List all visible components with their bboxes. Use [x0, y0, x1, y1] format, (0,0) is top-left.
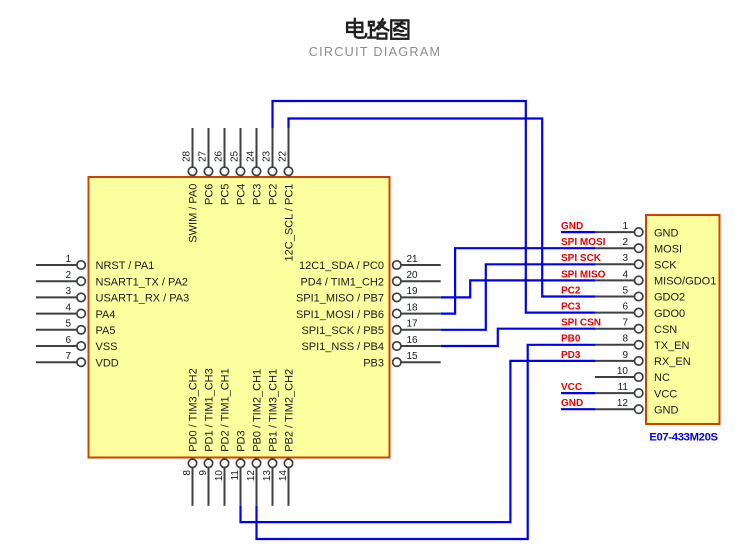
- MCU U1 body: [89, 177, 390, 458]
- bottom pin inner labels: [187, 368, 295, 452]
- pin 12 circle: [252, 459, 260, 467]
- pin 5 circle: [77, 326, 85, 334]
- module pin 11 circle: [635, 389, 643, 397]
- pin 22 wire: [288, 128, 290, 167]
- svg-text:SPI1_MISO / PB7: SPI1_MISO / PB7: [296, 293, 384, 305]
- module pin 5 circle: [635, 292, 643, 300]
- pin 12 wire: [595, 408, 635, 410]
- pin 18 wire: [401, 313, 441, 315]
- svg-text:SWIM / PA0: SWIM / PA0: [187, 184, 199, 243]
- pin 6 circle: [77, 342, 85, 350]
- svg-text:PC5: PC5: [219, 184, 231, 205]
- pin 25 circle: [236, 167, 244, 175]
- svg-text:PC2: PC2: [267, 184, 279, 205]
- pin 4 wire: [595, 279, 635, 281]
- svg-text:12: 12: [246, 470, 257, 482]
- pin 14 wire: [288, 468, 290, 506]
- svg-text:9: 9: [622, 350, 628, 361]
- svg-text:1: 1: [65, 254, 71, 265]
- pin 25 wire: [240, 128, 242, 167]
- pin 1 wire: [36, 264, 77, 266]
- svg-text:9: 9: [198, 470, 209, 476]
- pin 20 wire: [401, 280, 441, 282]
- pin 28 wire: [192, 128, 194, 167]
- net stub GND pin1: [561, 231, 595, 233]
- svg-text:8: 8: [622, 334, 628, 345]
- svg-text:3: 3: [65, 286, 71, 297]
- svg-text:SCK: SCK: [654, 260, 677, 272]
- pin 7 wire: [36, 361, 77, 363]
- svg-text:2: 2: [622, 237, 628, 248]
- 路: [369, 22, 374, 26]
- svg-text:12: 12: [617, 398, 629, 409]
- svg-text:SPI1_NSS / PB4: SPI1_NSS / PB4: [301, 341, 384, 353]
- svg-text:14: 14: [278, 470, 289, 482]
- pin 9 wire: [595, 360, 635, 362]
- MCU top pin stubs and circles: [193, 128, 289, 167]
- pin 12 wire: [256, 468, 258, 506]
- pin 11 circle: [236, 459, 244, 467]
- svg-text:12C_SCL / PC1: 12C_SCL / PC1: [283, 184, 295, 262]
- svg-text:PD3: PD3: [561, 350, 581, 361]
- svg-text:GDO0: GDO0: [654, 308, 685, 320]
- svg-text:5: 5: [65, 319, 71, 330]
- svg-text:GND: GND: [654, 404, 679, 416]
- svg-text:PB2 / TIM2_CH2: PB2 / TIM2_CH2: [283, 369, 295, 452]
- svg-text:20: 20: [407, 270, 419, 281]
- pin 15 wire: [401, 361, 441, 363]
- module pin numbers 1..12: [617, 221, 629, 409]
- pin 7 wire: [595, 328, 635, 330]
- svg-text:12C1_SDA / PC0: 12C1_SDA / PC0: [299, 260, 384, 272]
- pin 18 circle: [393, 309, 401, 317]
- svg-text:SPI1_MOSI / PB6: SPI1_MOSI / PB6: [296, 309, 384, 321]
- pin 28 circle: [188, 167, 196, 175]
- svg-text:8: 8: [182, 470, 193, 476]
- net name labels (red): [561, 221, 606, 409]
- left pin inner labels: [96, 260, 190, 369]
- module pin black stubs: [595, 232, 635, 409]
- module pin 8 circle: [635, 341, 643, 349]
- pin 26 circle: [220, 167, 228, 175]
- svg-text:VSS: VSS: [96, 341, 118, 353]
- pin 26 wire: [224, 128, 226, 167]
- svg-text:VCC: VCC: [654, 388, 677, 400]
- right pin inner labels: [296, 260, 384, 369]
- pin 5 wire: [595, 296, 635, 298]
- top pin numbers 28..22: [182, 150, 289, 162]
- pin 13 wire: [272, 468, 274, 506]
- pin 19 circle: [393, 293, 401, 301]
- module pin 10 circle: [635, 373, 643, 381]
- pin 1 circle: [77, 261, 85, 269]
- pin 23 wire: [272, 128, 274, 167]
- svg-text:SPI CSN: SPI CSN: [561, 318, 601, 329]
- svg-text:6: 6: [622, 302, 628, 313]
- svg-text:21: 21: [407, 254, 419, 265]
- pin 4 circle: [77, 309, 85, 317]
- right pin numbers 21..15: [407, 254, 419, 362]
- svg-text:25: 25: [230, 150, 241, 162]
- svg-text:SPI MOSI: SPI MOSI: [561, 237, 606, 248]
- title 电路图 (drawn as strokes): [347, 19, 408, 39]
- left pin numbers 1..7: [65, 254, 71, 362]
- pin 27 wire: [208, 128, 210, 167]
- svg-text:TX_EN: TX_EN: [654, 340, 690, 352]
- svg-text:11: 11: [230, 470, 241, 481]
- svg-text:15: 15: [407, 351, 419, 362]
- pin 7 circle: [77, 358, 85, 366]
- 电: [354, 19, 356, 33]
- pin 2 circle: [77, 277, 85, 285]
- MCU left pin stubs: [36, 265, 77, 362]
- pin 16 wire: [401, 345, 441, 347]
- svg-text:22: 22: [278, 150, 289, 162]
- top pin inner labels: [187, 184, 295, 262]
- wire PB0: MCU bottom pin12 to module pin8 stub: [257, 345, 596, 539]
- pin 17 wire: [401, 329, 441, 331]
- svg-text:2: 2: [65, 270, 71, 281]
- pin 6 wire: [36, 345, 77, 347]
- pin 24 wire: [256, 128, 258, 167]
- pin 10 circle: [220, 459, 228, 467]
- svg-text:CIRCUIT DIAGRAM: CIRCUIT DIAGRAM: [309, 45, 442, 59]
- svg-text:26: 26: [214, 150, 225, 162]
- svg-text:4: 4: [65, 302, 71, 313]
- pin 2 wire: [36, 280, 77, 282]
- module pin 7 circle: [635, 325, 643, 333]
- pin 14 circle: [284, 459, 292, 467]
- svg-text:PC3: PC3: [561, 302, 581, 313]
- svg-text:PD1 / TIM1_CH3: PD1 / TIM1_CH3: [203, 368, 215, 452]
- pin 5 wire: [36, 329, 77, 331]
- MCU right pin stubs: [401, 265, 441, 362]
- module pin 12 circle: [635, 405, 643, 413]
- svg-text:VCC: VCC: [561, 382, 582, 393]
- svg-text:GND: GND: [654, 227, 679, 239]
- svg-text:PA5: PA5: [96, 325, 116, 337]
- svg-text:PD3: PD3: [235, 430, 247, 451]
- svg-text:NRST / PA1: NRST / PA1: [96, 260, 155, 272]
- svg-text:GND: GND: [561, 398, 583, 409]
- svg-text:24: 24: [246, 150, 257, 162]
- svg-text:PD0 / TIM3_CH2: PD0 / TIM3_CH2: [187, 368, 199, 452]
- module U2 body E07-433M20S: [646, 215, 720, 424]
- svg-text:3: 3: [622, 253, 628, 264]
- svg-text:4: 4: [622, 269, 628, 280]
- pin 10 wire: [595, 376, 635, 378]
- module pin 1 circle: [635, 228, 643, 236]
- pin 3 circle: [77, 293, 85, 301]
- wire SPI MISO: MCU pin19 to module pin4 stub: [441, 280, 595, 297]
- pin 20 circle: [393, 277, 401, 285]
- pin 24 circle: [252, 167, 260, 175]
- pin 11 wire: [240, 468, 242, 506]
- pin 23 circle: [268, 167, 276, 175]
- module pin 3 circle: [635, 260, 643, 268]
- net stub VCC pin11: [561, 392, 595, 394]
- svg-text:7: 7: [65, 351, 71, 362]
- wire SPI SCK: MCU pin17 to module pin3 stub: [441, 264, 595, 330]
- pin 9 circle: [204, 459, 212, 467]
- svg-text:VDD: VDD: [96, 357, 119, 369]
- svg-text:23: 23: [262, 150, 273, 162]
- svg-text:PB0: PB0: [561, 334, 581, 345]
- pin 3 wire: [36, 296, 77, 298]
- svg-text:18: 18: [407, 302, 419, 313]
- module pin inner labels: [654, 227, 716, 416]
- svg-text:5: 5: [622, 285, 628, 296]
- svg-text:11: 11: [618, 382, 629, 393]
- svg-text:7: 7: [622, 318, 628, 329]
- pin 8 wire: [595, 344, 635, 346]
- svg-text:PB1 / TIM3_CH1: PB1 / TIM3_CH1: [267, 369, 279, 452]
- pin 9 wire: [208, 468, 210, 506]
- pin 2 wire: [595, 247, 635, 249]
- net stub GND pin12: [561, 408, 595, 410]
- svg-text:E07-433M20S: E07-433M20S: [649, 431, 718, 443]
- svg-text:PC4: PC4: [235, 184, 247, 205]
- svg-text:10: 10: [617, 366, 629, 377]
- svg-text:SPI1_SCK / PB5: SPI1_SCK / PB5: [301, 325, 384, 337]
- svg-text:SPI MISO: SPI MISO: [561, 269, 606, 280]
- pin 27 circle: [204, 167, 212, 175]
- pin 4 wire: [36, 313, 77, 315]
- svg-text:NC: NC: [654, 372, 670, 384]
- pin 3 wire: [595, 263, 635, 265]
- pin 8 circle: [188, 459, 196, 467]
- module pin 6 circle: [635, 308, 643, 316]
- pin 22 circle: [284, 167, 292, 175]
- wire PC1 net: MCU pin22 to module pin5 stub: [289, 119, 596, 297]
- svg-text:RX_EN: RX_EN: [654, 356, 691, 368]
- pin 6 wire: [595, 312, 635, 314]
- wire SPI CSN: MCU pin16 to module pin7 stub: [441, 329, 595, 346]
- svg-text:PB3: PB3: [363, 357, 384, 369]
- svg-text:16: 16: [407, 335, 419, 346]
- pin 17 circle: [393, 326, 401, 334]
- svg-text:13: 13: [262, 470, 273, 482]
- pin 15 circle: [393, 358, 401, 366]
- svg-text:GDO2: GDO2: [654, 292, 685, 304]
- svg-text:CSN: CSN: [654, 324, 677, 336]
- pin 19 wire: [401, 296, 441, 298]
- svg-text:PA4: PA4: [96, 309, 116, 321]
- pin 13 circle: [268, 459, 276, 467]
- svg-text:PB0 / TIM2_CH1: PB0 / TIM2_CH1: [251, 369, 263, 452]
- 图: [391, 20, 408, 38]
- pin 1 wire: [595, 231, 635, 233]
- svg-text:PC2: PC2: [561, 285, 581, 296]
- wire PC2 net: MCU pin23 to module pin6 stub: [273, 101, 596, 313]
- pin 21 wire: [401, 264, 441, 266]
- MCU bottom pin stubs: [193, 468, 289, 506]
- pin 16 circle: [393, 342, 401, 350]
- svg-text:SPI SCK: SPI SCK: [561, 253, 602, 264]
- svg-text:PD2 / TIM1_CH1: PD2 / TIM1_CH1: [219, 368, 231, 452]
- svg-text:19: 19: [407, 286, 419, 297]
- pin 10 wire: [224, 468, 226, 506]
- module pin 9 circle: [635, 357, 643, 365]
- pin 11 wire: [595, 392, 635, 394]
- wire SPI MOSI: MCU pin18 to module pin2 stub: [441, 248, 595, 313]
- svg-text:10: 10: [214, 470, 225, 482]
- svg-text:USART1_RX / PA3: USART1_RX / PA3: [96, 293, 190, 305]
- svg-text:27: 27: [198, 150, 209, 162]
- svg-text:PC3: PC3: [251, 184, 263, 205]
- svg-text:28: 28: [182, 150, 193, 162]
- module pin 2 circle: [635, 244, 643, 252]
- svg-text:17: 17: [407, 319, 419, 330]
- svg-text:MOSI: MOSI: [654, 243, 682, 255]
- bottom pin numbers 8..14: [182, 470, 289, 482]
- pin 8 wire: [192, 468, 194, 506]
- svg-text:NSART1_TX / PA2: NSART1_TX / PA2: [96, 276, 189, 288]
- svg-text:6: 6: [65, 335, 71, 346]
- pin 21 circle: [393, 261, 401, 269]
- svg-text:MISO/GDO1: MISO/GDO1: [654, 276, 716, 288]
- wire PD3: MCU bottom pin11 to module pin9 stub: [241, 361, 596, 522]
- module pin 4 circle: [635, 276, 643, 284]
- svg-text:PD4 / TIM1_CH2: PD4 / TIM1_CH2: [300, 276, 384, 288]
- svg-text:PC6: PC6: [203, 184, 215, 205]
- svg-text:GND: GND: [561, 221, 583, 232]
- svg-text:1: 1: [622, 221, 628, 232]
